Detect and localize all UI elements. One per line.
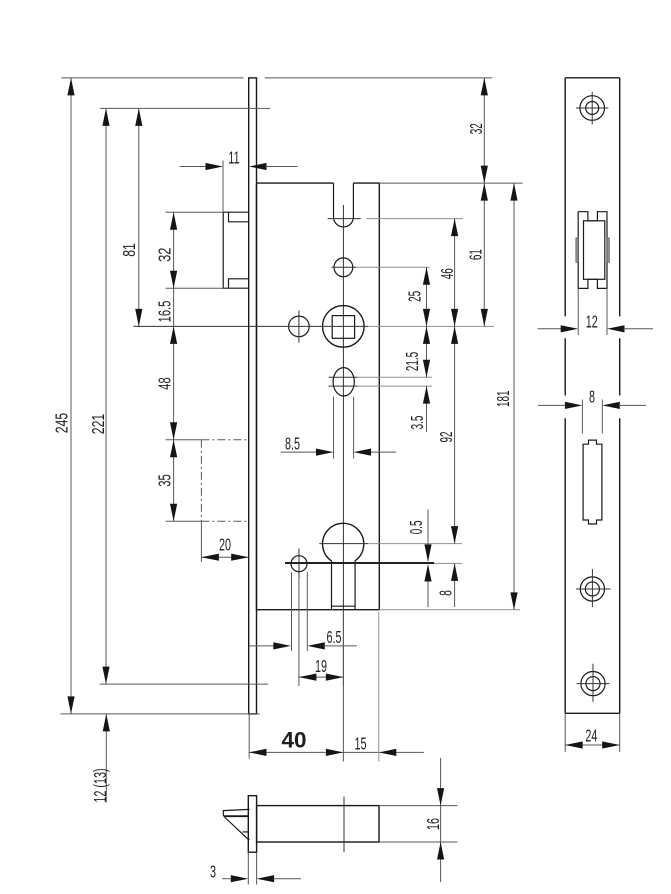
- dimension 3.5: [408, 386, 430, 432]
- latch width extension lines: [292, 572, 308, 651]
- lock body outline: [257, 183, 380, 610]
- svg-text:20: 20: [219, 536, 231, 555]
- dimension 92: [437, 326, 458, 543]
- latch pin horizontal line (double): [285, 562, 462, 564]
- svg-text:181: 181: [494, 390, 514, 407]
- spindle hub circle: [323, 306, 365, 348]
- latch bevel head: [223, 809, 249, 839]
- dimension 8 right: [437, 563, 459, 607]
- latch side lugs: [576, 238, 609, 262]
- svg-text:35: 35: [155, 474, 175, 486]
- latch pin circle C3: [291, 548, 307, 578]
- dimension 0.5: [407, 510, 432, 608]
- dimension 24: [565, 713, 620, 752]
- top screw hole: [576, 92, 608, 125]
- oval reference line lower: [329, 385, 432, 387]
- latch centerline extension: [298, 579, 300, 686]
- svg-text:12 (13): 12 (13): [91, 768, 110, 802]
- dimension 181 left: [494, 183, 518, 610]
- body bottom edge extension: [379, 609, 520, 611]
- main vertical centerline: [342, 205, 344, 686]
- bottom screw hole: [577, 664, 610, 702]
- strike plate outline: [565, 78, 620, 714]
- fixing hole C2: [289, 311, 310, 343]
- dimension 19: [299, 610, 344, 686]
- top extension line y78: [61, 77, 492, 79]
- cylinder centerline: [319, 543, 462, 545]
- dimension 8 strike: [538, 388, 646, 434]
- latch opening: [578, 212, 607, 289]
- latch height extension lines: [379, 806, 457, 842]
- cylinder circle: [323, 523, 364, 561]
- svg-text:3: 3: [210, 863, 216, 882]
- svg-text:32: 32: [156, 247, 176, 261]
- latch bolt in opening: [584, 221, 605, 279]
- svg-text:221: 221: [89, 414, 109, 434]
- svg-text:8: 8: [437, 590, 457, 596]
- lower cutout (dash-dot hidden): [201, 440, 248, 522]
- dimension 12 strike: [538, 288, 654, 335]
- cylinder slot extension lines: [334, 397, 354, 459]
- top notch slot with semicircular bottom: [334, 183, 354, 227]
- svg-text:92: 92: [437, 431, 457, 442]
- deadbolt opening: [583, 440, 602, 524]
- svg-text:16: 16: [424, 818, 443, 830]
- svg-text:245: 245: [52, 413, 72, 433]
- svg-text:61: 61: [467, 249, 487, 260]
- svg-text:32: 32: [467, 123, 487, 134]
- svg-text:19: 19: [315, 657, 327, 676]
- latch faceplate cross-section: [248, 796, 256, 853]
- dimension 15: [343, 612, 396, 762]
- middle screw hole: [576, 569, 611, 607]
- upper side cutout: [223, 212, 249, 288]
- svg-text:0.5: 0.5: [407, 521, 427, 535]
- cylinder oval hole: [333, 368, 354, 396]
- faceplate (front plate, side view): [249, 78, 257, 714]
- svg-text:46: 46: [438, 268, 458, 279]
- dimension 11: [180, 149, 298, 212]
- svg-text:12: 12: [586, 313, 598, 332]
- svg-text:21.5: 21.5: [403, 352, 423, 371]
- svg-text:81: 81: [120, 243, 140, 257]
- dimension 46: [438, 219, 458, 327]
- cylinder slot: [332, 561, 356, 610]
- dimension 245: [52, 78, 74, 714]
- dimension 81: [120, 108, 143, 326]
- dimension 20: [201, 521, 248, 562]
- notch centerline: [328, 218, 463, 220]
- dimension 221: [89, 108, 110, 684]
- upper hole C1: [332, 258, 430, 277]
- dimension 16: [424, 758, 444, 882]
- dimension 32 left: [156, 212, 224, 288]
- svg-text:24: 24: [585, 727, 597, 746]
- dimension 8.5: [281, 435, 396, 456]
- svg-text:25: 25: [406, 291, 426, 302]
- spindle square hole: [332, 316, 354, 339]
- svg-text:8: 8: [589, 388, 595, 407]
- bottom extension line y714: [61, 713, 260, 715]
- svg-text:8.5: 8.5: [285, 435, 300, 454]
- dimension 16.5: [155, 301, 175, 323]
- dimension 40: [249, 714, 424, 759]
- dimension 32 right: [467, 78, 488, 183]
- dimension 48: [155, 288, 177, 440]
- svg-text:48: 48: [155, 377, 175, 389]
- body top edge extension: [379, 182, 522, 184]
- dimension 25: [406, 267, 430, 326]
- latch bolt body: [257, 806, 379, 842]
- svg-text:40: 40: [281, 728, 306, 753]
- dimension 61: [467, 183, 488, 326]
- dimension 35: [155, 440, 177, 522]
- dimension 3: [210, 852, 301, 884]
- svg-text:15: 15: [354, 735, 366, 754]
- dimension 6.5: [249, 628, 357, 649]
- dimension 21.5: [403, 326, 430, 377]
- svg-text:3.5: 3.5: [408, 416, 428, 430]
- cutout extension lines: [166, 440, 202, 522]
- oval reference line upper: [329, 376, 432, 378]
- svg-text:16.5: 16.5: [155, 301, 175, 323]
- svg-text:11: 11: [228, 149, 239, 168]
- spindle horizontal centerline: [133, 325, 494, 327]
- extension line y684: [100, 683, 268, 685]
- dimension 12 (13): [91, 714, 110, 803]
- svg-text:6.5: 6.5: [326, 628, 341, 647]
- extension line y108: [100, 107, 270, 109]
- latch detail centerline: [343, 797, 345, 853]
